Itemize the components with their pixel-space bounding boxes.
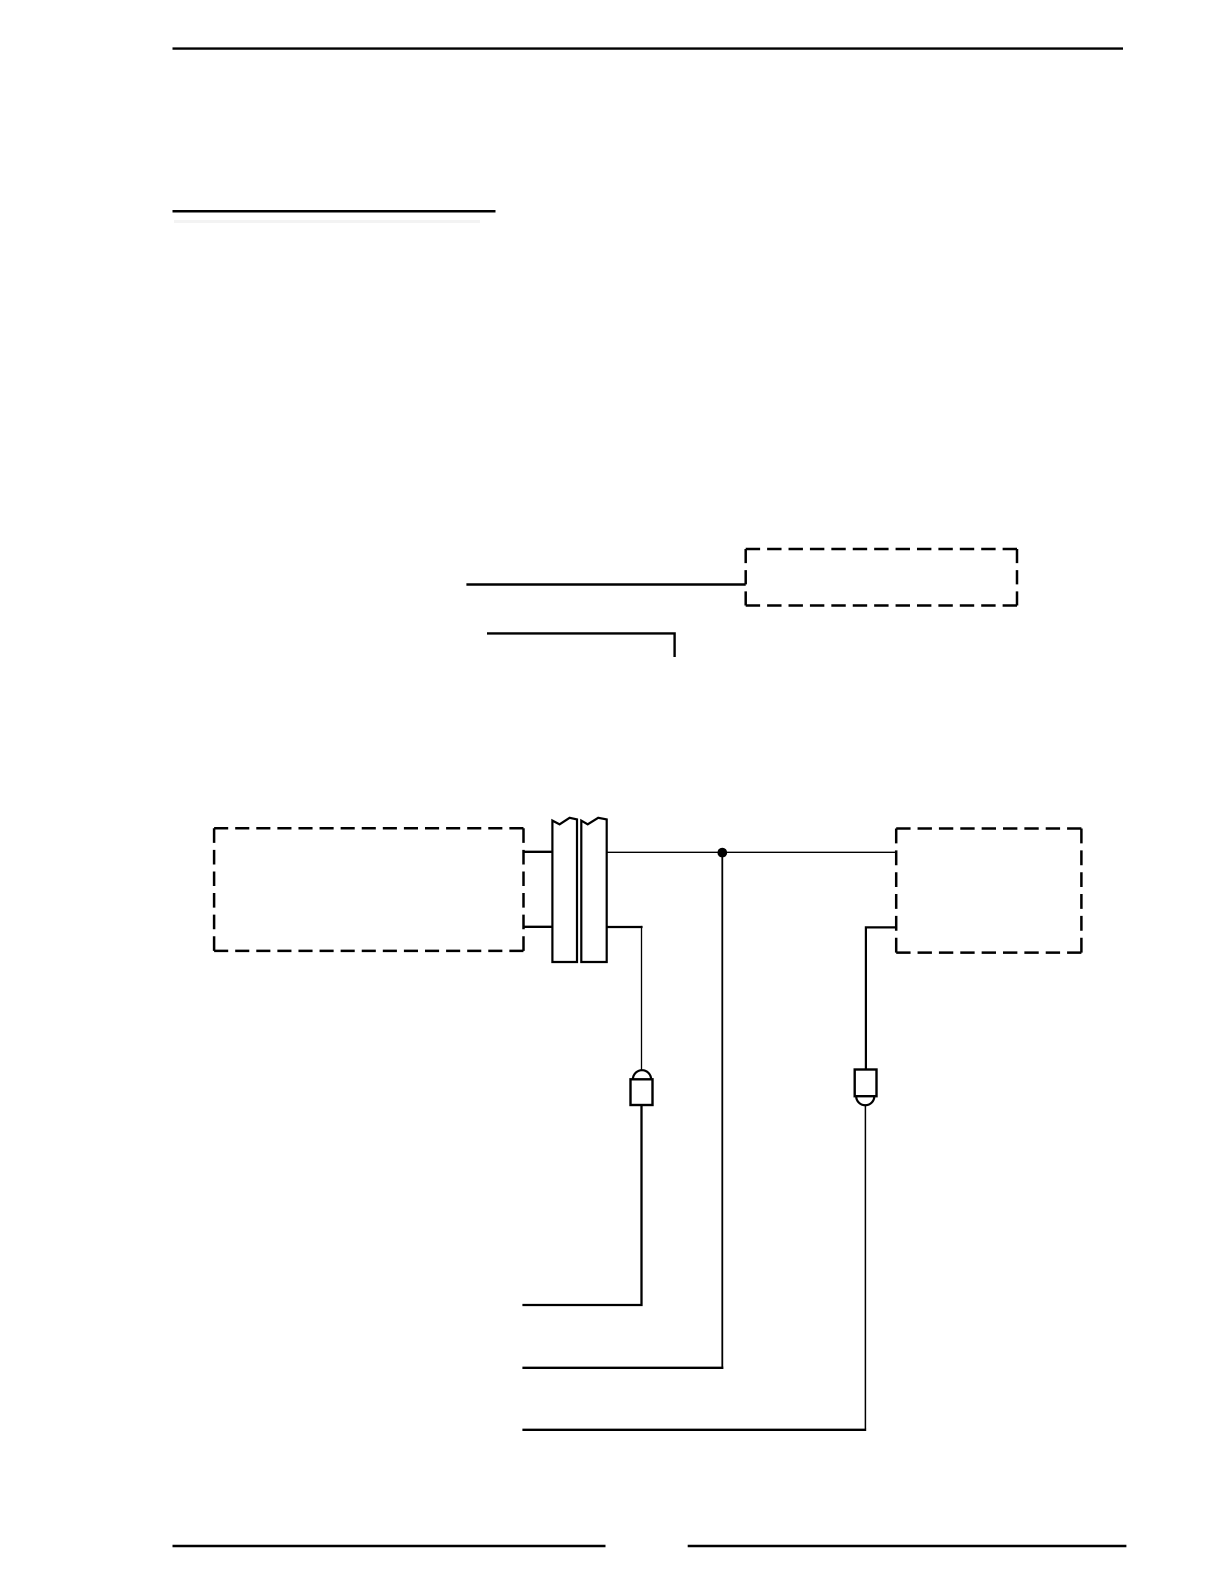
wire: right box lower lead bbox=[866, 927, 896, 1069]
component box (dashed, left) bbox=[214, 828, 523, 951]
bullet terminal, plug down bbox=[855, 1070, 877, 1106]
junction node bbox=[717, 848, 727, 858]
wire: connector lower lead with bend bbox=[606, 926, 643, 1070]
wire: below plug terminal bbox=[522, 1105, 866, 1430]
wire: callout leader line bbox=[466, 583, 745, 585]
connector half, left (torn-top bar) bbox=[552, 818, 577, 962]
wire: connector to right box (junction bus) bbox=[607, 851, 897, 853]
wire: left box to connector, upper bbox=[524, 851, 554, 853]
wire: junction drop to bottom bus bbox=[522, 853, 723, 1368]
bullet terminal, socket up bbox=[631, 1070, 653, 1105]
component box (dashed, right) bbox=[896, 829, 1081, 953]
connector half, right (torn-top bar) bbox=[581, 818, 606, 962]
callout box (dashed) bbox=[746, 549, 1017, 606]
wire: below socket terminal bbox=[522, 1105, 641, 1305]
wire: leader line with bend bbox=[487, 633, 675, 657]
wire: left box to connector, lower bbox=[524, 926, 554, 928]
